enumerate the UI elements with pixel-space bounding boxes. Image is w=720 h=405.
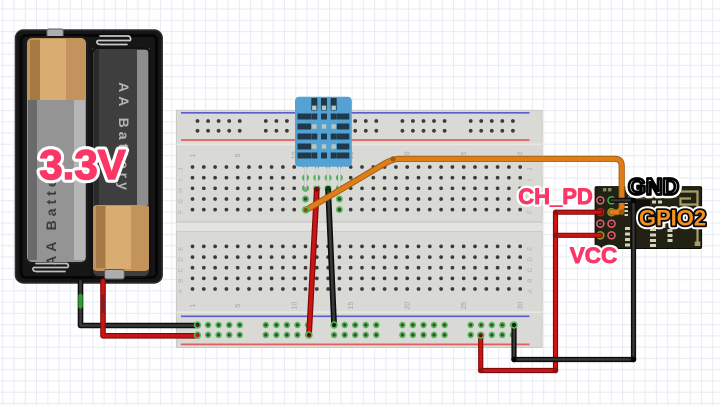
ESP-01 PCB antenna [676, 192, 698, 242]
svg-text:J: J [179, 168, 185, 171]
breadboard [176, 110, 542, 347]
breadboard bottom power-rail holes (connected, green) [195, 323, 515, 338]
breadboard column numbers [190, 151, 525, 309]
svg-text:CH_PD: CH_PD [518, 184, 593, 209]
wire: ESP VCC (red) joins same + rail run [478, 210, 600, 374]
svg-text:VCC: VCC [570, 243, 618, 268]
svg-text:5: 5 [235, 304, 242, 308]
svg-text:E: E [528, 247, 534, 251]
svg-text:F: F [179, 210, 185, 214]
wire: DHT11 data (orange) to ESP GPIO2 [303, 156, 625, 215]
battery positive pin highlight [101, 297, 105, 311]
svg-text:3.3V: 3.3V [39, 141, 125, 188]
svg-text:1: 1 [190, 153, 197, 157]
wire: ESP CH_PD (red) to bottom + rail [481, 212, 601, 370]
ESP-01 header pins [596, 196, 605, 205]
svg-text:F: F [528, 210, 534, 214]
svg-text:15: 15 [348, 302, 355, 310]
ESP8266 ESP-01 module U2 [595, 187, 702, 249]
svg-text:20: 20 [405, 302, 412, 310]
svg-text:D: D [179, 257, 185, 262]
wire: DHT11 VCC (red) down to bottom + rail [307, 187, 320, 338]
svg-text:H: H [179, 188, 185, 192]
breadboard main grid holes [191, 165, 522, 291]
wire: DHT11 GND (black) down to bottom - rail [326, 186, 337, 328]
connected-hole rings over wire ends on rails [195, 322, 517, 338]
wire: battery positive (red) to bottom rail row2 [103, 281, 198, 336]
svg-text:C: C [528, 267, 534, 272]
breadboard row letters [179, 168, 535, 294]
svg-text:GPIO2: GPIO2 [639, 206, 706, 231]
wire: battery negative (black) to bottom rail row1 [81, 281, 198, 326]
battery holder BT1 (2xAA, 3.3V) [16, 29, 163, 283]
svg-text:5: 5 [235, 153, 242, 157]
svg-text:GND: GND [628, 174, 679, 200]
svg-text:10: 10 [292, 302, 299, 310]
wire: ESP GND (black) to bottom - rail [511, 198, 636, 363]
svg-text:B: B [179, 279, 185, 283]
svg-text:D: D [528, 257, 534, 262]
breadboard connected-hole highlights under DHT11 [303, 186, 342, 213]
svg-text:A: A [528, 289, 534, 293]
svg-text:E: E [179, 247, 185, 251]
svg-text:J: J [528, 168, 534, 171]
svg-text:25: 25 [461, 302, 468, 310]
svg-text:G: G [179, 199, 185, 204]
svg-text:1: 1 [190, 304, 197, 308]
DHT11 sensor U1 [295, 97, 352, 191]
svg-text:C: C [179, 267, 185, 272]
breadboard top power-rail holes [196, 119, 515, 133]
battery negative pin highlight (green, connected) [78, 296, 82, 307]
svg-text:30: 30 [518, 302, 525, 310]
svg-text:A: A [179, 289, 185, 293]
svg-text:B: B [528, 279, 534, 283]
